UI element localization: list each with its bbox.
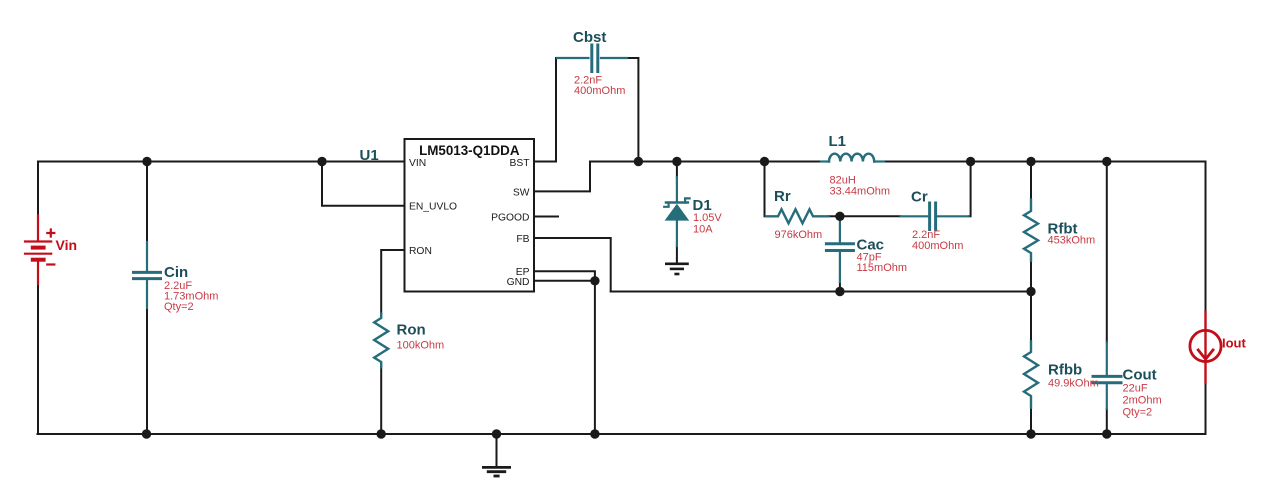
capacitor Cac (826, 216, 853, 282)
wire Iout top lead black (1205, 162, 1207, 312)
svg-text:22uF: 22uF (1123, 382, 1148, 394)
svg-text:Iout: Iout (1222, 335, 1246, 350)
svg-text:L1: L1 (829, 133, 847, 150)
wire Cout top lead black (1106, 162, 1108, 343)
svg-text:Ron: Ron (397, 322, 426, 339)
svg-text:EN_UVLO: EN_UVLO (409, 202, 457, 213)
svg-text:2mOhm: 2mOhm (1123, 394, 1162, 406)
node Rfbb bottom junction (1026, 429, 1035, 438)
wire Cac bottom black to FB net (839, 282, 841, 292)
capacitor Cin (134, 242, 161, 308)
node Cout bottom junction (1102, 429, 1111, 438)
diode D1 (schottky) (664, 177, 689, 246)
svg-text:Vin: Vin (56, 237, 78, 253)
wire output rail after L1 (884, 161, 1206, 163)
resistor Rr (766, 209, 829, 223)
wire BST pin stub up to Cbst (534, 58, 556, 162)
wire Cbst right lead down to SW rail (627, 58, 638, 162)
svg-text:GND: GND (507, 277, 530, 288)
svg-text:SW: SW (513, 187, 530, 198)
voltage source Vin (battery) (25, 216, 54, 285)
resistor Ron (374, 314, 388, 368)
wire Cin bottom lead black (146, 308, 148, 434)
wire battery bottom lead black (37, 284, 39, 434)
wire PGOOD pin stub (open) (534, 216, 558, 218)
svg-text:Qty=2: Qty=2 (1123, 406, 1153, 418)
svg-text:Qty=2: Qty=2 (164, 301, 194, 313)
wire top rail VIN net: battery top to IC VIN pin (38, 161, 405, 163)
node Cac/FB junction (835, 287, 844, 296)
node FB divider junction (1026, 287, 1035, 296)
svg-text:Rfbb: Rfbb (1048, 362, 1082, 379)
wire FB node down to Rfbb (1030, 292, 1032, 342)
wire SW rail to L1 (590, 161, 821, 163)
capacitor Cr (900, 203, 968, 230)
wire Cr right corner up to output rail (969, 162, 971, 217)
wire GND pin stub (534, 280, 595, 282)
node Cout top junction (1102, 157, 1111, 166)
svg-text:Cr: Cr (911, 189, 928, 206)
svg-text:49.9kOhm: 49.9kOhm (1048, 377, 1099, 389)
svg-text:976kOhm: 976kOhm (775, 229, 823, 241)
svg-text:PGOOD: PGOOD (491, 213, 529, 224)
wire D1 bottom lead to ground symbol (676, 246, 678, 264)
wire bottom ground rail (38, 433, 1206, 435)
node Cin bottom junction (142, 429, 151, 438)
wire Rr to Cr net (829, 215, 901, 217)
svg-text:Cin: Cin (164, 264, 188, 281)
svg-text:10A: 10A (693, 224, 713, 236)
wire Rr branch drop from SW rail (764, 162, 766, 217)
node Rfbt top junction (1026, 157, 1035, 166)
node GND pin rail junction (590, 429, 599, 438)
capacitor Cbst (557, 45, 627, 72)
op-amp/IC U1 LM5013-Q1DDA body (405, 139, 535, 292)
wire Rfbt top lead black (1030, 162, 1032, 200)
node Cbst/SW junction (634, 157, 643, 166)
current source Iout (1190, 312, 1221, 383)
svg-text:U1: U1 (360, 147, 379, 164)
node D1 top junction (672, 157, 681, 166)
svg-text:400mOhm: 400mOhm (574, 85, 625, 97)
wire Iout bottom lead black (1205, 383, 1207, 434)
node Cr top junction (966, 157, 975, 166)
inductor L1 (821, 154, 884, 162)
svg-text:FB: FB (516, 234, 529, 245)
wire Cout bottom lead black (1106, 409, 1108, 434)
node EN_UVLO tap junction (317, 157, 326, 166)
svg-text:1.05V: 1.05V (693, 212, 722, 224)
wire SW pin stub (534, 162, 590, 192)
node EP/GND junction (590, 276, 599, 285)
node Ron bottom junction (377, 429, 386, 438)
wire center ground stub (496, 434, 498, 467)
wire Rfbt bottom to FB node (1030, 261, 1032, 292)
svg-text:RON: RON (409, 246, 432, 257)
node Rr/Cac/Cr junction (835, 212, 844, 221)
wire Ron bottom lead to ground rail (380, 367, 382, 434)
node Rr branch junction (760, 157, 769, 166)
svg-text:100kOhm: 100kOhm (397, 340, 445, 352)
wire EP pin stub (534, 271, 595, 281)
wire Rfbb bottom lead to ground rail (1030, 408, 1032, 434)
node ground stub junction (492, 429, 501, 438)
capacitor Cout (1093, 342, 1121, 408)
wire RON pin stub (381, 250, 404, 314)
svg-text:115mOhm: 115mOhm (857, 262, 908, 274)
wire D1 top lead black (676, 162, 678, 178)
svg-text:BST: BST (509, 158, 530, 169)
svg-text:453kOhm: 453kOhm (1048, 235, 1096, 247)
ground (main rail) (482, 467, 511, 476)
wire FB pin stub (534, 238, 611, 292)
resistor Rfbt (1024, 200, 1038, 261)
wire FB net horizontal to feedback divider (611, 291, 1031, 293)
wire Cin top lead black (146, 162, 148, 243)
resistor Rfbb (1024, 341, 1038, 407)
svg-text:33.44mOhm: 33.44mOhm (830, 186, 891, 198)
node Cin top junction (142, 157, 151, 166)
wire GND pin down to ground rail (594, 281, 596, 434)
wire EN_UVLO pin to top rail (322, 162, 405, 206)
wire battery top lead black (37, 162, 39, 216)
svg-text:VIN: VIN (409, 158, 426, 169)
ground (D1) (665, 264, 689, 274)
svg-text:Cout: Cout (1123, 367, 1157, 384)
svg-text:LM5013-Q1DDA: LM5013-Q1DDA (419, 143, 520, 158)
svg-text:Cbst: Cbst (573, 29, 606, 46)
svg-text:Rr: Rr (774, 188, 791, 205)
svg-text:400mOhm: 400mOhm (912, 240, 963, 252)
